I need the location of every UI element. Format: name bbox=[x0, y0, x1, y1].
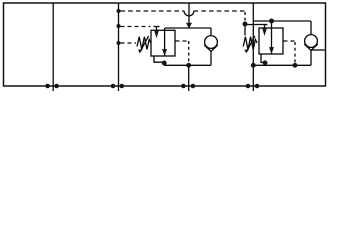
valve U2 through line bbox=[271, 21, 273, 54]
valve U2 spring bbox=[243, 37, 257, 50]
node P2-pilot1 bbox=[117, 9, 121, 13]
valve U2 top link bbox=[253, 20, 311, 22]
junction dot P2 left bbox=[111, 84, 116, 89]
arrowhead P3 bbox=[186, 23, 192, 29]
pilot line D3 bbox=[121, 42, 137, 44]
valve U1 spring bbox=[137, 37, 151, 50]
junction dot P2 right bbox=[120, 84, 125, 89]
check valve CV2 outlet to border bbox=[311, 49, 326, 51]
junction dot P3 left bbox=[181, 84, 186, 89]
node D1 corner bbox=[243, 22, 248, 27]
check valve CV1 ball bbox=[205, 36, 218, 49]
valve U1 pilot T-bar bbox=[154, 26, 160, 28]
port line P3 upper bbox=[188, 3, 190, 23]
valve U1 seat stem bbox=[156, 27, 158, 31]
manifold border bbox=[4, 3, 326, 86]
valve U2 seat stem bbox=[264, 25, 266, 29]
check valve CV1 seat bbox=[204, 45, 218, 51]
pilot line D1 drop bbox=[244, 12, 246, 23]
node P3 bottom bbox=[186, 63, 191, 68]
junction dot P3 right bbox=[191, 84, 196, 89]
check valve CV2 seat bbox=[304, 44, 318, 50]
valve U2 adjust arrowhead bbox=[244, 49, 249, 53]
node U2 top bbox=[269, 19, 274, 24]
valve U1 through line bbox=[164, 28, 166, 56]
check valve CV2 upper lead bbox=[310, 21, 312, 35]
node P2-pilot3 bbox=[117, 41, 121, 45]
pilot branch to valve U2 bbox=[245, 24, 262, 26]
pilot line D1 left bbox=[121, 10, 185, 12]
valve U2 pilot T-bar bbox=[262, 24, 268, 26]
wire U1 bottom line bbox=[164, 64, 211, 66]
valve U2 seat arrow bbox=[262, 28, 267, 36]
check valve CV2 lower lead bbox=[310, 50, 312, 65]
valve U1 bottom stub bbox=[154, 56, 164, 65]
valve U2 flow arrow bbox=[269, 47, 274, 54]
port line P1 bbox=[52, 3, 54, 91]
pilot line D5 bbox=[284, 40, 296, 42]
valve U1 body bbox=[151, 30, 175, 56]
junction dot P4 left bbox=[246, 84, 251, 89]
node U1 outlet bbox=[162, 61, 167, 66]
node D5 bottom bbox=[293, 63, 298, 68]
node U2 outlet bbox=[263, 60, 268, 65]
valve U1 adjust arrowhead bbox=[138, 49, 143, 53]
valve U1 flow arrow bbox=[162, 49, 167, 56]
pilot line drop at P3 bbox=[188, 41, 190, 64]
valve U2 bottom stub bbox=[261, 54, 266, 65]
pilot line D5 drop bbox=[294, 42, 296, 64]
pilot line D4 bbox=[176, 40, 189, 42]
pilot hop over P3 bbox=[184, 11, 194, 16]
check valve CV1 upper lead bbox=[210, 28, 212, 36]
valve U2 body bbox=[259, 28, 283, 54]
junction dot P1 right bbox=[54, 84, 59, 89]
valve U1 adjust arrow shaft bbox=[140, 36, 148, 52]
port line P4 bbox=[252, 3, 254, 91]
pilot line D1 right bbox=[194, 10, 245, 12]
valve U1 top link bbox=[165, 27, 211, 29]
valve U1 seat arrow bbox=[154, 30, 159, 38]
junction dot P1 left bbox=[45, 84, 50, 89]
node P4 bottom-line bbox=[251, 63, 256, 68]
junction dot P4 right bbox=[255, 84, 260, 89]
port line P2 bbox=[118, 3, 120, 91]
check valve CV2 ball bbox=[305, 35, 318, 48]
pilot branch to spring U2 bbox=[244, 24, 246, 36]
wire U2 bottom line bbox=[253, 64, 311, 66]
port line P3 lower bbox=[188, 65, 190, 91]
node P2-pilot2 bbox=[117, 24, 121, 28]
check valve CV1 lower lead bbox=[210, 51, 212, 65]
pilot line D2 bbox=[121, 26, 151, 28]
valve U2 adjust arrow shaft bbox=[247, 36, 255, 52]
